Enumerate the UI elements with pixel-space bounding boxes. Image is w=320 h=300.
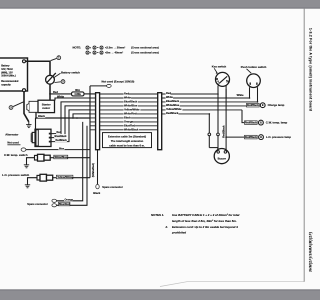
svg-text:length of less than 2.5m, 40m²: length of less than 2.5m, 40m² for less …	[172, 219, 237, 223]
wire Blue	[26, 146, 90, 150]
buzzer	[214, 149, 229, 164]
svg-text:Battery switch: Battery switch	[61, 70, 80, 74]
svg-text:Yellow/White: Yellow/White	[124, 107, 140, 111]
svg-text:30A: 30A	[75, 88, 80, 92]
svg-text:Black: Black	[124, 115, 131, 119]
svg-text:White/Blue: White/Blue	[124, 103, 138, 107]
wire Red to fuse	[50, 90, 72, 94]
key switch terminal wires	[218, 86, 226, 98]
page edge right	[303, 9, 305, 282]
svg-text:M: M	[216, 78, 218, 81]
wire Black starter ground	[35, 112, 90, 118]
svg-text:White: White	[237, 93, 245, 97]
ground battery	[26, 122, 31, 128]
bottom scanner bar	[0, 289, 320, 300]
wire White label	[236, 93, 244, 97]
svg-text:White: White	[124, 96, 132, 100]
connector bar left	[96, 93, 100, 150]
svg-text:Spare connector: Spare connector	[27, 202, 48, 206]
node 1 label	[51, 56, 61, 61]
svg-text:Alternator: Alternator	[5, 132, 19, 136]
svg-text:Recommended: Recommended	[1, 80, 19, 83]
svg-text:The total length extension: The total length extension	[111, 139, 144, 143]
junction dots	[249, 97, 259, 103]
wire charge lamp feed	[247, 103, 260, 107]
node 3 label	[9, 102, 24, 110]
svg-text:100AH (Min.): 100AH (Min.)	[1, 75, 16, 78]
svg-text:White/Black: White/Black	[124, 127, 139, 131]
svg-text:1-3.2 For the A type (small) i: 1-3.2 For the A type (small) instrument …	[308, 28, 312, 111]
svg-text:C.W. temp. switch: C.W. temp. switch	[4, 153, 28, 157]
wire alternator riser 3	[51, 110, 90, 142]
svg-text:Orange: Orange	[124, 119, 134, 123]
svg-text:Black: Black	[93, 191, 101, 195]
page corner shadow bottom	[160, 282, 304, 287]
CW temp lamp	[259, 120, 288, 125]
svg-text:Spare connector: Spare connector	[102, 185, 123, 189]
svg-text:Red: Red	[57, 132, 62, 134]
svg-text:Yellow/White: Yellow/White	[57, 176, 73, 179]
not used harness stub	[90, 80, 134, 88]
svg-text:Extension cord: Up to 2 8m usa: Extension cord: Up to 2 8m usable but be…	[172, 225, 238, 229]
charge lamp	[260, 103, 284, 108]
bus junction line	[89, 86, 91, 178]
svg-text:Blue: Blue	[59, 147, 65, 150]
wire alternator riser 2	[51, 106, 90, 138]
svg-text:Yellow/White: Yellow/White	[166, 107, 182, 111]
svg-text:L.O. pressure lamp: L.O. pressure lamp	[266, 135, 291, 139]
svg-text:Blue/Black: Blue/Black	[124, 99, 138, 103]
svg-text:Red/Black: Red/Black	[56, 140, 68, 142]
alternator wire labels	[54, 130, 67, 142]
svg-text:NOTE:: NOTE:	[73, 46, 82, 50]
svg-text:FUSE: FUSE	[75, 94, 82, 96]
svg-text:Red: Red	[53, 90, 58, 94]
connector bar right	[158, 93, 162, 150]
svg-text:Orange: Orange	[65, 198, 74, 201]
svg-text:Charge lamp: Charge lamp	[268, 103, 285, 107]
svg-text:Blue/Black: Blue/Black	[166, 99, 180, 103]
wire CW temp lamp feed	[242, 110, 257, 125]
battery switch label	[54, 70, 80, 77]
spare connector right	[93, 184, 123, 195]
svg-text:(Cross sectional area): (Cross sectional area)	[131, 46, 159, 50]
svg-text:capacity: capacity	[1, 84, 11, 87]
ground LO pressure	[25, 178, 37, 188]
svg-text:White: White	[166, 95, 174, 99]
spare connector left	[27, 199, 56, 207]
node 2 label	[55, 80, 65, 84]
margin title (rotated)	[308, 28, 312, 111]
wire starter riser 4	[73, 114, 90, 118]
svg-text:Buzzer: Buzzer	[218, 157, 226, 161]
CW temp switch	[4, 153, 68, 161]
wire buzzer drop A	[208, 113, 218, 151]
svg-text:Use BATTERY CABLE 1 + 2 + 3 of: Use BATTERY CABLE 1 + 2 + 3 of 20mm² for…	[172, 213, 239, 217]
wire White from starter	[55, 94, 96, 100]
svg-text:(Cross sectional area): (Cross sectional area)	[131, 51, 159, 55]
svg-text:Push button switch: Push button switch	[241, 65, 267, 69]
notes text bottom	[151, 213, 239, 235]
svg-text:White: White	[57, 94, 65, 98]
wire LO pressure to harness	[72, 177, 90, 179]
svg-text:Red/Black: Red/Black	[221, 125, 225, 138]
svg-text:L.O. pressure switch: L.O. pressure switch	[2, 173, 30, 177]
wire Orange	[57, 122, 83, 201]
svg-text:3HM(2F)/3HMA(M)(2F): 3HM(2F)/3HMA(M)(2F)	[309, 232, 313, 272]
svg-text:Red/Black: Red/Black	[245, 136, 257, 139]
svg-text:Red: Red	[124, 92, 129, 96]
svg-text:Not used (Except 1GM10): Not used (Except 1GM10)	[102, 80, 135, 84]
push button switch	[247, 74, 261, 88]
note text top	[73, 46, 159, 55]
key switch	[216, 72, 230, 86]
push button terminal wires	[250, 87, 258, 102]
LO pressure lamp	[259, 135, 292, 140]
wire White/Red tail	[91, 150, 98, 185]
svg-text:Blue/Red: Blue/Red	[124, 123, 135, 127]
wire CW temp to harness	[67, 157, 90, 159]
svg-text:prohibited: prohibited	[171, 231, 186, 235]
svg-text:Not used: Not used	[7, 141, 19, 145]
wire key to buzzer right	[221, 89, 227, 151]
wire switch to starter B	[49, 84, 51, 100]
starter motor M	[27, 100, 55, 112]
alternator label	[5, 132, 19, 136]
svg-text:Red: Red	[166, 91, 171, 95]
svg-text:Black: Black	[38, 114, 45, 118]
wire buzzer drop B	[217, 93, 220, 150]
svg-text:Red/Black: Red/Black	[247, 104, 259, 107]
fuse F1 30A	[72, 88, 85, 96]
svg-text:motor: motor	[42, 106, 51, 110]
not used connector	[7, 141, 26, 152]
battery	[0, 58, 28, 92]
harness wires between connectors	[90, 91, 158, 131]
svg-text:White/Red: White/Red	[124, 111, 137, 115]
svg-text:2.: 2.	[165, 225, 169, 229]
LO pressure switch	[2, 173, 73, 181]
harness wires right section	[162, 91, 258, 115]
key switch label	[212, 64, 227, 74]
svg-text:(White/Red): (White/Red)	[91, 163, 95, 177]
svg-text:Key switch: Key switch	[212, 64, 227, 68]
svg-text:NOTES 1.: NOTES 1.	[151, 213, 164, 217]
wire battery+ to switch	[26, 61, 51, 75]
alternator G	[31, 118, 51, 147]
ground CW temp	[24, 158, 35, 168]
wire LO pressure lamp feed	[226, 135, 257, 139]
wire battery- cable	[24, 92, 29, 122]
svg-text:<5m → 40mm²: <5m → 40mm²	[105, 51, 123, 55]
svg-text:White/Blue: White/Blue	[54, 156, 67, 159]
top scanner bar	[0, 0, 320, 9]
svg-text:<2.5m → 20mm²: <2.5m → 20mm²	[105, 46, 125, 50]
svg-text:Extension cable 3m (Standard): Extension cable 3m (Standard)	[108, 134, 146, 138]
svg-text:Red/Black: Red/Black	[245, 121, 257, 124]
wire fuse to harness	[84, 93, 96, 95]
margin model code (rotated)	[309, 232, 313, 272]
svg-text:Blue/Black: Blue/Black	[55, 136, 68, 138]
wire Blue/Red spare	[57, 126, 88, 206]
svg-text:Red/Black: Red/Black	[166, 111, 179, 115]
push button label	[241, 65, 267, 73]
svg-text:White/Blue: White/Blue	[166, 103, 180, 107]
battery switch S1	[46, 73, 56, 84]
wire alternator R riser	[51, 102, 90, 134]
svg-text:cable must be less than 6 m.: cable must be less than 6 m.	[109, 143, 145, 147]
extension cable note box	[103, 133, 152, 148]
svg-text:Blue/Red: Blue/Red	[59, 203, 70, 206]
svg-text:C.W. temp. lamp: C.W. temp. lamp	[266, 121, 288, 125]
